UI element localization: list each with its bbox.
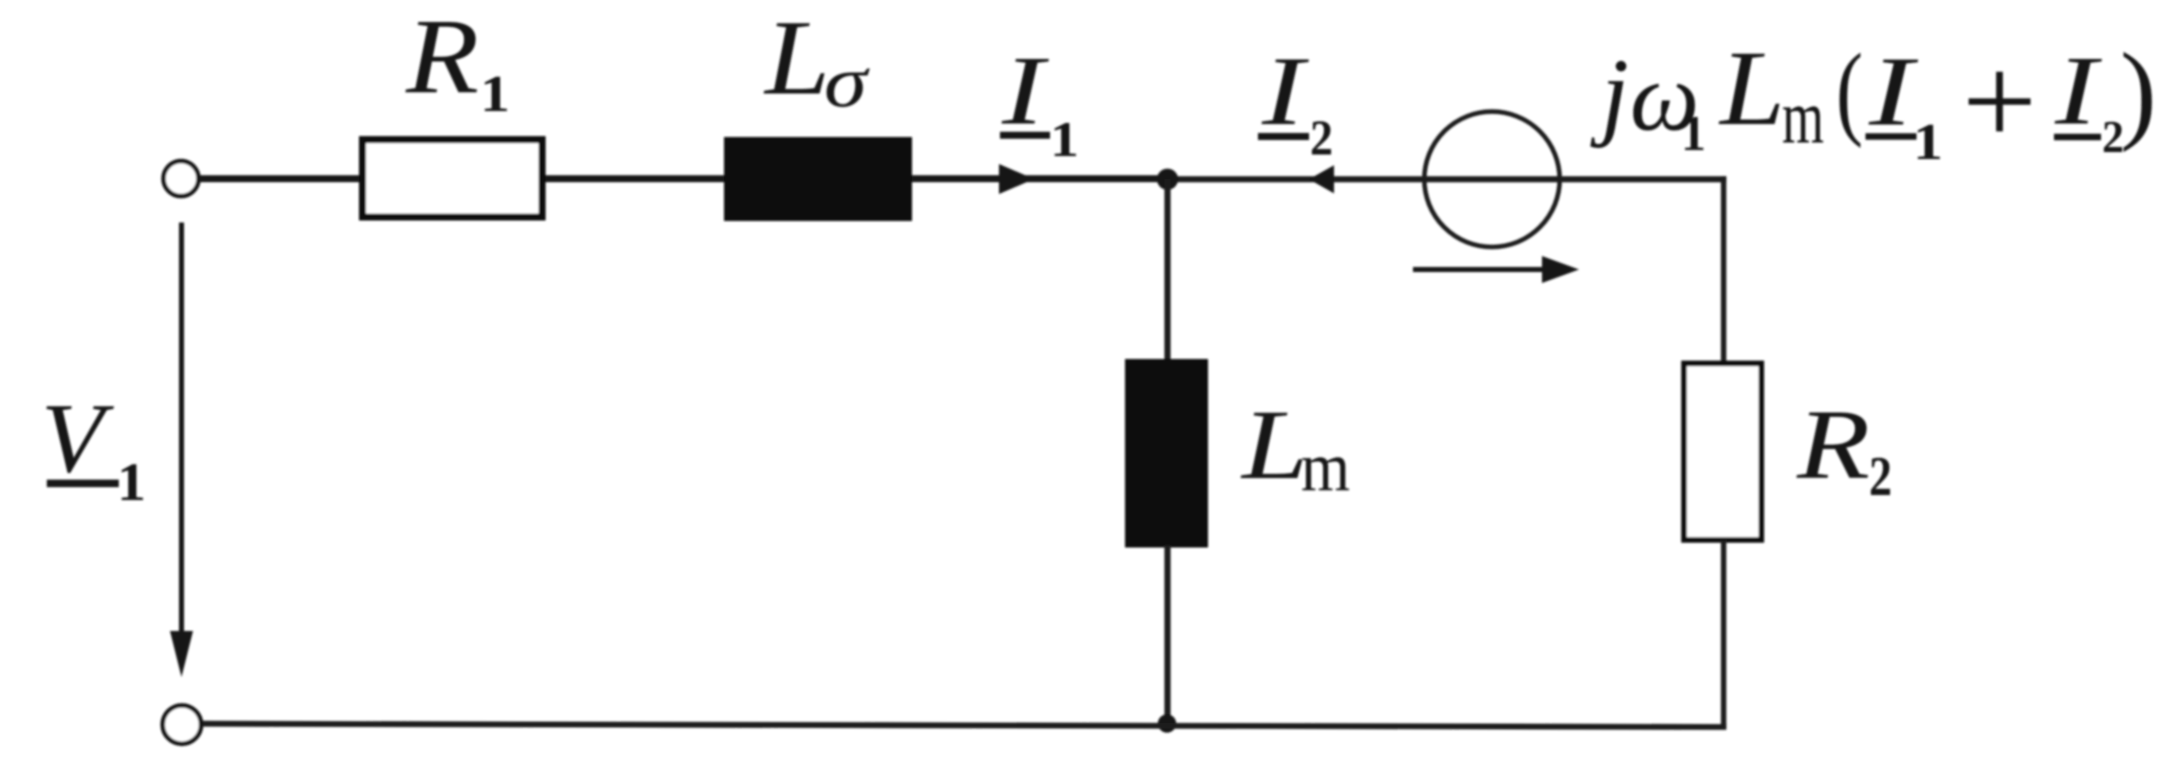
svg-text:L: L (1718, 30, 1785, 148)
inductor Lsigma (724, 137, 912, 221)
label R1 (405, 0, 510, 123)
svg-text:L: L (1240, 389, 1308, 500)
terminal T1 top-left (164, 161, 199, 196)
svg-text:2: 2 (1869, 446, 1892, 508)
svg-text:+: + (1962, 30, 2037, 172)
label Lm (1240, 389, 1350, 507)
svg-text:I: I (1868, 38, 1919, 147)
node B junction dot (1158, 714, 1176, 732)
svg-text:V: V (41, 383, 114, 494)
svg-text:L: L (763, 0, 830, 118)
wire node A to top-right corner (1167, 176, 1726, 182)
svg-text:I: I (1261, 37, 1309, 146)
wire node A down to Lm (1164, 179, 1170, 361)
terminal T2 bottom-left (163, 705, 201, 743)
svg-text:): ) (2120, 31, 2157, 153)
resistor R2 (1684, 363, 1761, 540)
svg-text:1: 1 (117, 452, 146, 512)
svg-text:m: m (1301, 430, 1350, 507)
wire bottom run (202, 724, 1726, 727)
svg-text:1: 1 (1050, 111, 1079, 167)
label I1 (1000, 37, 1079, 168)
svg-text:j: j (1590, 38, 1629, 149)
label jw1Lm(I1+I2) (1590, 30, 2157, 172)
current arrow I1 (999, 164, 1034, 194)
arrow source current direction (1413, 256, 1579, 283)
voltage arrow V1 (170, 223, 193, 678)
wire T1 to node A (top run) (199, 175, 1167, 182)
label R2 (1796, 389, 1892, 509)
label Lsigma (763, 0, 871, 123)
label V1 (41, 383, 146, 513)
current source U1 (1424, 112, 1559, 247)
label I2 (1258, 37, 1333, 165)
current arrow I2 (1309, 165, 1334, 193)
svg-text:1: 1 (1681, 105, 1706, 161)
svg-text:(: ( (1836, 32, 1863, 149)
resistor R1 (363, 140, 543, 217)
svg-text:m: m (1782, 76, 1824, 160)
svg-text:I: I (2054, 37, 2102, 146)
svg-text:I: I (1001, 37, 1049, 146)
svg-text:R: R (1796, 389, 1870, 500)
node A junction dot (1157, 169, 1178, 190)
inductor Lm (1125, 359, 1208, 548)
wire Lm to node B (1164, 545, 1170, 724)
svg-text:R: R (405, 0, 479, 117)
svg-text:1: 1 (1913, 114, 1943, 171)
svg-text:2: 2 (1310, 109, 1333, 165)
svg-text:σ: σ (824, 42, 871, 123)
svg-text:1: 1 (480, 66, 510, 123)
wire R2 to bottom (1721, 540, 1726, 729)
wire right vertical top (corner to R2) (1721, 176, 1726, 362)
